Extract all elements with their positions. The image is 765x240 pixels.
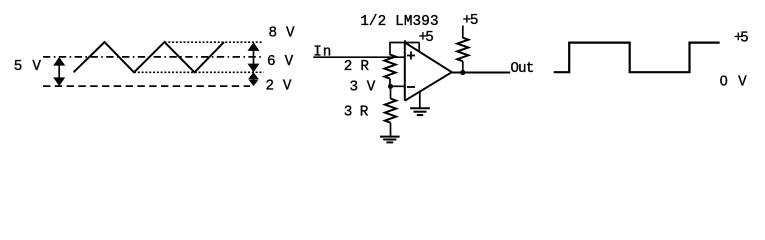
resistor pull-up (457, 38, 468, 62)
svg-text:3 R: 3 R (344, 105, 369, 121)
resistor 2R (384, 55, 395, 79)
5 V amplitude arrow (double-headed, left) (53, 57, 65, 86)
input triangle waveform: 0 V ground dashed reference line (43, 85, 250, 87)
wire: comparator output to Out (452, 72, 510, 74)
svg-text:+5: +5 (463, 13, 479, 29)
pin - (inverting) marker (407, 86, 415, 88)
wire: 2R bottom to 3V node (389, 79, 391, 87)
svg-text:5 V: 5 V (14, 59, 42, 75)
comparator V+ pin tick (404, 40, 406, 43)
svg-text:0 V: 0 V (720, 74, 747, 91)
svg-text:+5: +5 (419, 30, 434, 46)
svg-text:1/2 LM393: 1/2 LM393 (360, 14, 438, 30)
wire: +5 down to pull-up resistor (462, 26, 464, 39)
comparator V+ power pin notch (418, 43, 420, 52)
ground symbol below comparator (410, 108, 430, 115)
resistor 3R (385, 99, 396, 123)
wire: 3V node to comparator inverting input (391, 85, 405, 87)
wire: pull-up resistor down to output node (462, 61, 464, 72)
wire: 3V node down to resistor 3R (390, 86, 392, 98)
svg-text:8 V: 8 V (269, 25, 296, 41)
wire: comparator V- pin stub down to ground (419, 92, 421, 109)
ground symbol below 3R (380, 137, 400, 143)
output square wave trace (554, 43, 720, 73)
svg-text:Out: Out (510, 61, 534, 77)
input triangle waveform: 2 V valley reference dotted line (134, 71, 264, 73)
svg-text:+5: +5 (734, 30, 749, 46)
wire: divider top lead down to resistor 2R (389, 43, 391, 56)
input triangle wave trace (74, 42, 225, 72)
svg-text:2 R: 2 R (344, 59, 370, 75)
input triangle waveform: 5 V average dash-dot reference line (43, 56, 261, 58)
svg-text:2 V: 2 V (266, 79, 292, 95)
svg-text:6 V: 6 V (267, 54, 294, 70)
wire: In to comparator noninverting input (313, 56, 405, 58)
pin + (noninverting) marker (407, 52, 415, 60)
wire: 3R bottom to ground (390, 123, 392, 137)
svg-text:In: In (313, 45, 331, 61)
op-amp U1 comparator 1/2 LM393 triangle (405, 43, 452, 101)
6 V peak-to-peak arrow (double-headed, right) (248, 42, 260, 72)
svg-text:3 V: 3 V (350, 80, 376, 96)
2 V offset arrow (double-headed, small, right) (248, 72, 258, 86)
output node junction dot (460, 70, 465, 75)
wire: +5 rail shelf to voltage divider top (389, 42, 419, 44)
node 3V junction dot (388, 84, 393, 89)
input triangle waveform: 8 V peak reference dotted line (165, 41, 263, 43)
